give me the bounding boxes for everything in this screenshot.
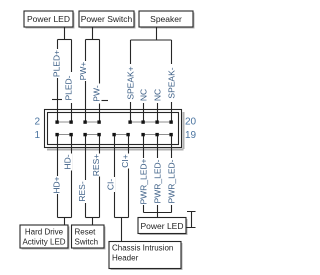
label PW+	[79, 61, 88, 81]
label HD+	[52, 176, 61, 194]
pad pin1 HD+	[55, 133, 58, 136]
svg-text:19: 19	[185, 130, 197, 141]
svg-text:HD+: HD+	[52, 176, 62, 193]
pad pin14 SPEAK+	[128, 120, 131, 123]
bracket beside bottom Power LED box	[187, 212, 196, 228]
svg-text:Power Switch: Power Switch	[81, 14, 133, 24]
wire PWR_LED+ (col7 down)	[143, 136, 145, 213]
wire: Power LED fork bar	[58, 39, 72, 41]
svg-text:Power LED: Power LED	[27, 14, 70, 24]
label RES-	[78, 180, 87, 203]
wire: PWR_LED fork bar	[144, 212, 172, 214]
marker + at PLED+ pin	[52, 99, 62, 101]
wire: HD fork bar	[58, 217, 72, 219]
pad pin3 HD-	[69, 133, 72, 136]
pad pin5 RES-	[83, 133, 86, 136]
wire: Power Switch fork bar	[86, 39, 100, 41]
marker - at PW- pin	[102, 100, 109, 102]
svg-text:2: 2	[34, 117, 40, 128]
pad pin11 CI+	[126, 133, 129, 136]
svg-text:NC: NC	[153, 89, 163, 101]
pad pin2 PLED+	[55, 120, 58, 123]
wire: CI fork bar	[115, 217, 129, 219]
connector shadow	[47, 112, 184, 150]
svg-text:CI-: CI-	[106, 179, 116, 191]
wire: Power LED stem	[64, 27, 66, 40]
pad pin19 PWR_LED-	[169, 133, 172, 136]
connector inner box	[48, 113, 179, 145]
wire: RES fork bar	[86, 217, 100, 219]
svg-text:PLED-: PLED-	[64, 75, 74, 100]
pad pin16 NC	[141, 120, 144, 123]
wire PWR_LED- (col8 down)	[157, 136, 159, 213]
label PWR_LED- (col9)	[167, 158, 176, 205]
pad pin6 PW+	[83, 120, 86, 123]
box Hard Drive Activity LED (shadow)	[22, 227, 70, 250]
wire HD- (col2 down)	[71, 136, 73, 218]
svg-text:HD-: HD-	[63, 154, 73, 169]
wire CI- (col5 down)	[114, 136, 116, 218]
wire CI+ (col6 down)	[128, 136, 130, 218]
svg-text:PW-: PW-	[92, 85, 102, 102]
wire: CI stem	[121, 218, 123, 242]
wire RES- (col3 down)	[85, 136, 87, 218]
wire: RES stem	[92, 218, 94, 226]
label SPEAK-	[167, 64, 176, 102]
wire PLED+ (col1 down to pin)	[57, 40, 59, 122]
label HD-	[63, 154, 72, 171]
wire PW- (col4 down to pin)	[99, 40, 101, 122]
svg-text:PWR_LED-: PWR_LED-	[167, 159, 177, 203]
link bottom row HD pair	[57, 134, 72, 136]
connector outer box	[45, 110, 182, 148]
label SPEAK+	[126, 64, 135, 102]
pad pin8 PW-	[97, 120, 100, 123]
wire SPEAK+ (col6 down to pin)	[130, 40, 132, 121]
svg-text:Reset: Reset	[75, 228, 97, 237]
wire: Speaker fork bar	[131, 39, 172, 41]
pad pin4 PLED-	[69, 120, 72, 123]
link bottom row CI pair	[114, 134, 129, 136]
wire NC stub (col7)	[143, 103, 145, 121]
svg-text:PW+: PW+	[78, 62, 88, 81]
link top row PW pair	[85, 121, 100, 123]
svg-text:Speaker: Speaker	[150, 14, 182, 24]
pad pin9 CI-	[112, 133, 115, 136]
svg-text:CI+: CI+	[120, 154, 130, 168]
svg-text:1: 1	[34, 130, 40, 141]
label RES+	[92, 154, 101, 177]
wire NC stub (col8)	[157, 103, 159, 121]
label PWR_LED-	[153, 158, 162, 205]
pad pin20 SPEAK-	[169, 120, 172, 123]
svg-text:RES+: RES+	[91, 154, 101, 176]
pad pin15 PWR_LED+	[141, 133, 144, 136]
wire SPEAK- (col9 down to pin)	[171, 40, 173, 121]
svg-text:Header: Header	[112, 254, 139, 263]
svg-text:Chassis Intrusion: Chassis Intrusion	[112, 244, 173, 253]
box Speaker (top, shadow)	[141, 13, 195, 29]
label PLED+	[52, 49, 61, 78]
wire RES+ (col4 down)	[99, 136, 101, 218]
pad pin7 RES+	[97, 133, 100, 136]
svg-text:Activity LED: Activity LED	[22, 238, 65, 247]
link bottom row RES pair	[85, 134, 100, 136]
svg-text:PLED+: PLED+	[52, 50, 62, 77]
link top row PLED pair	[57, 121, 72, 123]
label NC (col8)	[153, 87, 162, 102]
svg-text:Hard Drive: Hard Drive	[25, 228, 64, 237]
label PWR_LED+	[139, 158, 148, 205]
pad pin17 PWR_LED-	[155, 133, 158, 136]
label CI-	[106, 177, 115, 192]
svg-text:SPEAK-: SPEAK-	[167, 67, 177, 98]
box Power Switch (top, shadow)	[81, 13, 136, 29]
label PLED-	[64, 72, 73, 103]
box Power LED (top, shadow)	[26, 13, 75, 29]
box Chassis Intrusion Header (shadow)	[111, 243, 183, 270]
link top row Speaker group	[130, 121, 172, 123]
svg-text:SPEAK+: SPEAK+	[126, 66, 136, 99]
svg-text:PWR_LED-: PWR_LED-	[153, 159, 163, 203]
wire: Power Switch stem	[92, 27, 94, 40]
box Power LED (bottom, shadow)	[140, 219, 188, 235]
label PW-	[92, 84, 101, 104]
link bottom row PWR_LED group	[143, 134, 172, 136]
wire: HD stem	[64, 218, 66, 226]
wire: PWR_LED stem	[157, 213, 159, 218]
svg-text:RES-: RES-	[77, 181, 87, 201]
wire PW+ (col3 down to pin)	[85, 40, 87, 122]
box Reset Switch (shadow)	[73, 227, 106, 250]
svg-text:PWR_LED+: PWR_LED+	[139, 158, 149, 204]
pad pin18 NC	[155, 120, 158, 123]
wire: Speaker stem	[156, 27, 158, 40]
wire PWR_LED- (col9 down)	[171, 136, 173, 213]
svg-text:Switch: Switch	[75, 238, 99, 247]
svg-text:Power LED: Power LED	[141, 221, 184, 231]
label NC (col7)	[139, 87, 148, 102]
wire HD+ (col1 down)	[57, 136, 59, 218]
wire PLED- (col2 down to pin)	[71, 40, 73, 122]
label CI+	[121, 154, 130, 169]
svg-text:20: 20	[185, 117, 197, 128]
svg-text:NC: NC	[139, 89, 149, 101]
